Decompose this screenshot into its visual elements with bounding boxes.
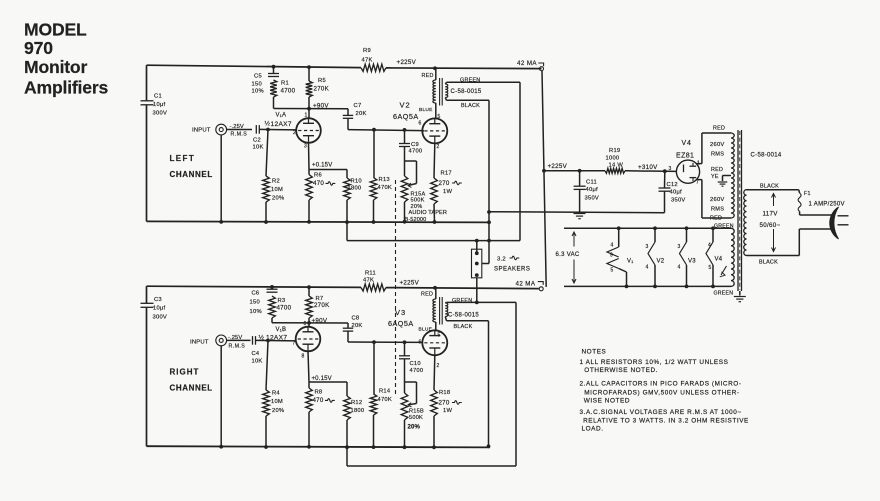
svg-text:NOTES: NOTES [581, 349, 606, 356]
svg-text:5: 5 [610, 267, 613, 273]
svg-text:V₁B: V₁B [275, 327, 286, 333]
svg-text:R14: R14 [379, 388, 391, 394]
svg-text:C1: C1 [154, 93, 162, 99]
svg-text:RED: RED [710, 215, 722, 221]
svg-text:F1: F1 [804, 191, 811, 197]
svg-text:R4: R4 [272, 390, 280, 396]
svg-text:4700: 4700 [409, 368, 423, 374]
svg-text:9: 9 [610, 252, 613, 258]
svg-text:6: 6 [303, 321, 306, 327]
svg-text:GREEN: GREEN [714, 223, 734, 229]
svg-text:1800: 1800 [348, 185, 362, 191]
svg-text:+310V: +310V [638, 164, 658, 171]
svg-text:3.2: 3.2 [497, 257, 506, 263]
svg-text:3: 3 [678, 244, 681, 250]
svg-text:470K: 470K [377, 397, 392, 403]
svg-text:1: 1 [697, 160, 700, 166]
svg-text:MODEL: MODEL [24, 19, 87, 39]
svg-text:C12: C12 [667, 182, 678, 188]
svg-text:+225V: +225V [399, 279, 419, 286]
svg-text:47K: 47K [363, 277, 374, 283]
svg-text:10μf: 10μf [153, 102, 166, 108]
svg-text:BLACK: BLACK [759, 260, 778, 266]
svg-text:+90V: +90V [311, 317, 327, 324]
svg-text:BLUE: BLUE [418, 326, 432, 332]
svg-text:270: 270 [438, 399, 449, 406]
svg-text:R18: R18 [439, 390, 450, 396]
svg-text:V3: V3 [395, 308, 406, 317]
svg-text:R3: R3 [277, 298, 285, 304]
svg-text:470: 470 [312, 397, 323, 404]
svg-text:R17: R17 [441, 171, 452, 177]
svg-text:1: 1 [305, 112, 308, 118]
svg-text:V₁: V₁ [627, 258, 634, 264]
svg-text:C3: C3 [154, 297, 162, 303]
svg-text:B-52000: B-52000 [405, 217, 427, 223]
svg-text:14 W: 14 W [609, 162, 624, 168]
svg-text:RED: RED [711, 167, 723, 173]
svg-text:R15B: R15B [409, 408, 424, 414]
svg-text:150: 150 [249, 299, 259, 305]
svg-text:BLACK: BLACK [453, 324, 472, 330]
svg-text:R5: R5 [318, 78, 326, 84]
svg-text:Amplifiers: Amplifiers [24, 78, 108, 98]
svg-text:4700: 4700 [409, 148, 423, 154]
svg-text:500K: 500K [411, 197, 425, 203]
svg-text:2: 2 [293, 130, 296, 136]
svg-text:+0.15V: +0.15V [311, 376, 331, 382]
svg-text:1W: 1W [443, 408, 452, 414]
svg-text:R13: R13 [379, 177, 390, 183]
svg-text:5: 5 [438, 114, 441, 120]
svg-text:20%: 20% [407, 424, 420, 430]
svg-text:7: 7 [292, 340, 295, 346]
svg-text:R9: R9 [363, 48, 371, 54]
svg-text:RED: RED [421, 291, 433, 297]
svg-text:V2: V2 [656, 258, 664, 264]
svg-text:V4: V4 [714, 256, 722, 262]
svg-text:12AX7: 12AX7 [266, 334, 287, 341]
svg-text:R.M.S: R.M.S [231, 131, 248, 137]
svg-text:AUDIO TAPER: AUDIO TAPER [409, 210, 448, 216]
svg-text:R1: R1 [281, 80, 289, 86]
svg-text:RED: RED [713, 125, 725, 131]
svg-text:10%: 10% [249, 309, 261, 315]
svg-text:350V: 350V [671, 198, 686, 204]
svg-text:GREEN: GREEN [713, 290, 733, 296]
svg-text:6: 6 [419, 120, 422, 126]
svg-text:V2: V2 [400, 100, 411, 109]
svg-text:4700: 4700 [281, 87, 296, 94]
svg-text:YE: YE [711, 174, 719, 180]
svg-text:6AQ5A: 6AQ5A [393, 112, 419, 121]
svg-text:R2: R2 [272, 178, 280, 184]
svg-text:47K: 47K [362, 57, 373, 63]
svg-text:6: 6 [418, 339, 421, 345]
svg-text:R12: R12 [351, 400, 362, 406]
svg-text:117V: 117V [763, 211, 779, 218]
svg-text:6.3 VAC: 6.3 VAC [555, 252, 579, 258]
svg-text:6AQ5A: 6AQ5A [388, 319, 414, 328]
svg-text:10M: 10M [271, 187, 283, 193]
svg-text:RIGHT: RIGHT [169, 367, 199, 376]
svg-text:42 MA: 42 MA [517, 60, 537, 67]
svg-text:5: 5 [708, 265, 711, 271]
svg-text:V4: V4 [682, 140, 692, 147]
svg-text:270K: 270K [314, 302, 330, 309]
svg-text:+90V: +90V [313, 102, 329, 109]
svg-text:3: 3 [669, 166, 672, 172]
svg-text:1800: 1800 [350, 408, 364, 414]
svg-text:BLACK: BLACK [461, 103, 480, 109]
svg-text:-.25V: -.25V [230, 124, 244, 130]
svg-text:270: 270 [439, 180, 450, 187]
svg-text:INPUT: INPUT [190, 339, 209, 345]
svg-text:40μf: 40μf [586, 187, 599, 193]
svg-text:300V: 300V [152, 314, 167, 320]
svg-text:10%: 10% [252, 89, 264, 95]
svg-text:12AX7: 12AX7 [271, 121, 292, 128]
svg-text:7: 7 [696, 180, 699, 186]
svg-text:CHANNEL: CHANNEL [170, 170, 213, 179]
svg-text:SPEAKERS: SPEAKERS [494, 267, 530, 273]
svg-text:GREEN: GREEN [460, 78, 480, 84]
svg-text:C8: C8 [351, 315, 359, 321]
svg-text:1 AMP/250V: 1 AMP/250V [809, 202, 845, 208]
svg-text:R.M.S: R.M.S [228, 343, 245, 349]
svg-text:40μf: 40μf [670, 190, 683, 196]
svg-text:3: 3 [304, 143, 307, 149]
svg-text:500K: 500K [409, 415, 423, 421]
svg-text:10M: 10M [271, 399, 283, 405]
svg-text:+0.15V: +0.15V [312, 162, 332, 168]
svg-text:150: 150 [252, 82, 262, 88]
svg-text:INPUT: INPUT [192, 127, 211, 133]
svg-text:50/60~: 50/60~ [760, 222, 781, 229]
svg-text:WISE NOTED: WISE NOTED [584, 397, 630, 404]
svg-text:½: ½ [258, 333, 264, 341]
svg-text:5: 5 [437, 332, 440, 338]
svg-text:+225V: +225V [548, 163, 568, 170]
svg-text:20K: 20K [356, 111, 367, 117]
svg-text:C5: C5 [254, 73, 262, 79]
svg-text:BLUE: BLUE [419, 107, 433, 113]
svg-text:OTHERWISE NOTED.: OTHERWISE NOTED. [584, 367, 658, 374]
svg-text:+225V: +225V [397, 59, 417, 66]
svg-text:EZ81: EZ81 [676, 153, 694, 160]
svg-text:4: 4 [611, 242, 614, 248]
svg-text:C-58-0015: C-58-0015 [451, 89, 482, 95]
svg-text:1 ALL RESISTORS 10%, 1/2 WATT: 1 ALL RESISTORS 10%, 1/2 WATT UNLESS [579, 359, 728, 366]
svg-text:R10: R10 [351, 178, 362, 184]
svg-text:260V: 260V [710, 142, 725, 148]
svg-text:10μf: 10μf [153, 305, 166, 311]
svg-text:R6: R6 [314, 172, 322, 178]
svg-text:V3: V3 [688, 258, 696, 264]
svg-text:BLACK: BLACK [760, 183, 779, 189]
svg-text:-.25V: -.25V [228, 335, 242, 341]
svg-text:C9: C9 [411, 142, 419, 148]
svg-text:R11: R11 [365, 270, 376, 276]
svg-text:970: 970 [24, 38, 53, 58]
svg-text:20%: 20% [272, 195, 284, 201]
svg-text:R19: R19 [609, 148, 620, 154]
svg-text:10K: 10K [253, 144, 264, 150]
svg-text:300V: 300V [153, 110, 168, 116]
svg-text:C-58-0014: C-58-0014 [751, 153, 782, 159]
svg-text:270K: 270K [314, 85, 330, 92]
svg-text:LOAD.: LOAD. [581, 426, 603, 433]
svg-text:C-58-0015: C-58-0015 [448, 313, 479, 319]
svg-text:1W: 1W [443, 189, 452, 195]
svg-text:V₁A: V₁A [276, 112, 287, 118]
svg-text:4: 4 [677, 264, 680, 270]
svg-text:20K: 20K [351, 323, 362, 329]
svg-text:RED: RED [422, 73, 434, 79]
svg-text:20%: 20% [272, 408, 284, 414]
svg-text:20%: 20% [411, 204, 423, 210]
svg-text:4700: 4700 [276, 304, 291, 311]
svg-text:Monitor: Monitor [24, 57, 87, 77]
svg-text:260V: 260V [710, 197, 725, 203]
svg-text:350V: 350V [585, 196, 600, 202]
svg-text:470K: 470K [378, 185, 393, 191]
svg-text:8: 8 [301, 353, 304, 359]
svg-text:RMS: RMS [711, 207, 724, 213]
svg-text:1000: 1000 [606, 155, 620, 161]
svg-text:4: 4 [645, 264, 648, 270]
svg-text:GREEN: GREEN [452, 298, 472, 304]
svg-text:3.A.C.SIGNAL VOLTAGES ARE R.M.: 3.A.C.SIGNAL VOLTAGES ARE R.M.S AT 1000~ [579, 409, 741, 416]
svg-text:2: 2 [436, 363, 439, 369]
svg-text:3: 3 [646, 244, 649, 250]
svg-text:2: 2 [437, 144, 440, 150]
svg-text:R8: R8 [314, 389, 322, 395]
svg-text:2.ALL CAPACITORS IN PICO FARAD: 2.ALL CAPACITORS IN PICO FARADS (MICRO- [579, 381, 741, 388]
svg-text:CHANNEL: CHANNEL [169, 383, 212, 392]
svg-text:C11: C11 [586, 180, 597, 186]
svg-text:C2: C2 [253, 137, 261, 143]
svg-text:470: 470 [313, 180, 324, 187]
svg-text:10K: 10K [251, 358, 262, 364]
svg-text:LEFT: LEFT [170, 154, 196, 163]
svg-text:MICROFARADS) GMV,500V UNLESS O: MICROFARADS) GMV,500V UNLESS OTHER- [584, 389, 739, 396]
svg-text:C6: C6 [251, 290, 259, 296]
svg-text:C7: C7 [354, 103, 362, 109]
svg-text:RELATIVE TO 3 WATTS. IN 3.2 OH: RELATIVE TO 3 WATTS. IN 3.2 OHM RESISTIV… [583, 418, 749, 425]
svg-text:4: 4 [708, 242, 711, 248]
svg-text:42 MA: 42 MA [515, 280, 535, 287]
svg-text:C4: C4 [251, 351, 259, 357]
svg-text:RMS: RMS [711, 152, 724, 158]
svg-text:C10: C10 [409, 361, 420, 367]
